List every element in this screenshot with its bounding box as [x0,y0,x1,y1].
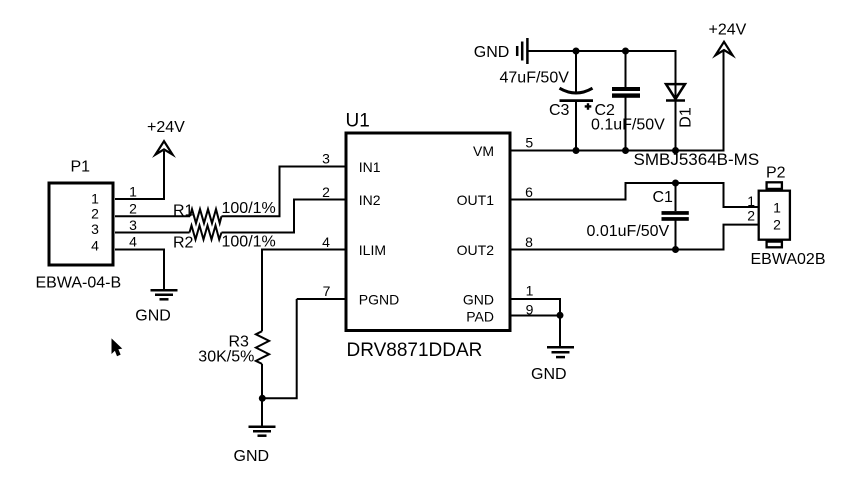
svg-text:4: 4 [91,238,99,254]
svg-text:PGND: PGND [359,292,399,308]
svg-text:OUT1: OUT1 [457,192,495,208]
svg-text:1: 1 [526,283,534,299]
svg-text:GND: GND [234,448,270,465]
svg-text:GND: GND [135,307,171,324]
svg-text:4: 4 [322,234,330,250]
svg-text:3: 3 [91,221,99,237]
svg-text:GND: GND [463,292,494,308]
svg-text:3: 3 [322,151,330,167]
svg-text:7: 7 [323,283,331,299]
svg-text:PAD: PAD [466,308,494,324]
svg-text:IN1: IN1 [359,159,381,175]
svg-text:C3: C3 [549,102,570,119]
svg-text:0.1uF/50V: 0.1uF/50V [591,116,665,133]
svg-text:DRV8871DDAR: DRV8871DDAR [347,340,483,361]
svg-text:47uF/50V: 47uF/50V [500,70,570,87]
svg-text:+24V: +24V [709,22,747,39]
svg-text:1: 1 [91,190,99,206]
svg-text:R1: R1 [173,203,194,220]
svg-text:2: 2 [747,208,755,224]
svg-text:SMBJ5364B-MS: SMBJ5364B-MS [634,150,760,169]
svg-text:P1: P1 [71,159,91,176]
svg-text:9: 9 [526,301,534,317]
svg-text:C1: C1 [653,189,674,206]
svg-text:EBWA02B: EBWA02B [751,251,826,268]
svg-text:1: 1 [773,199,781,215]
svg-text:30K/5%: 30K/5% [198,349,254,366]
svg-text:2: 2 [91,206,99,222]
svg-text:0.01uF/50V: 0.01uF/50V [587,223,670,240]
svg-text:GND: GND [531,366,567,383]
svg-text:5: 5 [525,135,533,151]
svg-text:2: 2 [322,184,330,200]
svg-text:P2: P2 [766,165,786,182]
svg-text:2: 2 [129,201,137,217]
svg-text:OUT2: OUT2 [457,242,495,258]
svg-text:6: 6 [525,184,533,200]
svg-text:EBWA-04-B: EBWA-04-B [36,275,122,292]
svg-text:U1: U1 [346,111,370,132]
svg-text:2: 2 [773,216,781,232]
svg-text:3: 3 [129,217,137,233]
svg-text:GND: GND [474,44,510,61]
svg-text:8: 8 [525,234,533,250]
svg-text:1: 1 [747,193,755,209]
svg-text:1: 1 [129,184,137,200]
svg-text:+24V: +24V [147,119,185,136]
svg-text:4: 4 [129,234,137,250]
svg-text:100/1%: 100/1% [222,200,276,217]
svg-text:100/1%: 100/1% [222,233,276,250]
svg-text:R2: R2 [173,234,194,251]
svg-text:VM: VM [473,143,494,159]
svg-text:D1: D1 [678,107,695,128]
svg-text:IN2: IN2 [359,192,381,208]
svg-text:ILIM: ILIM [359,242,386,258]
